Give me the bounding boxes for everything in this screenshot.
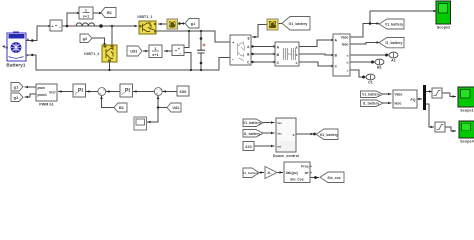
- svg-text:1: 1: [154, 47, 156, 51]
- svg-text:a: a: [347, 53, 349, 57]
- three-phase VI measurement: [333, 34, 350, 76]
- from tag g2: [80, 34, 92, 43]
- universal bridge inverter: [230, 35, 251, 65]
- svg-text:Scope2: Scope2: [437, 25, 450, 29]
- from tag I1_battery PQ: [361, 100, 384, 107]
- wire tag V1 to douze: [263, 122, 274, 124]
- three-phase filter block: [275, 42, 299, 66]
- svg-text:s+1: s+1: [152, 53, 158, 57]
- svg-text:220: 220: [245, 145, 252, 149]
- svg-text:I1_battery: I1_battery: [363, 102, 380, 106]
- svg-text:I1_battery: I1_battery: [385, 41, 402, 45]
- wire gain to PLL: [277, 172, 283, 174]
- svg-text:B: B: [277, 53, 280, 57]
- goto tag U81: [127, 46, 142, 56]
- wire g2 tag to IGBT2 gate: [92, 38, 105, 44]
- goto tag Sin_cos: [320, 172, 344, 183]
- wire IGBT1 out to inverter plus: [156, 31, 230, 42]
- from tag I1_battery douze: [243, 130, 263, 138]
- wire from g1 to yellow sq1: [181, 23, 185, 25]
- svg-text:A: A: [335, 39, 338, 43]
- svg-text:B: B: [335, 54, 338, 58]
- scope Scope1: [458, 87, 474, 112]
- gain K: [265, 167, 277, 179]
- svg-text:Battery1: Battery1: [6, 63, 26, 68]
- svg-text:pwm1: pwm1: [38, 93, 48, 97]
- rate transition RT2: [435, 122, 445, 132]
- wire PI2 to sum1: [107, 91, 121, 93]
- terminal oval C1: [366, 74, 375, 85]
- svg-text:Vref: Vref: [49, 90, 56, 94]
- yellow memory block YSQ1: [167, 19, 178, 29]
- scope Scope4: [459, 121, 474, 143]
- constant 220: [243, 142, 254, 151]
- wire filter b to measurement B: [299, 54, 332, 55]
- terminal oval B1: [375, 59, 384, 70]
- goto tag g1 left: [11, 83, 23, 92]
- wire voltage measure plus up: [184, 31, 189, 48]
- wire PI1 to PWM vref: [59, 91, 74, 93]
- svg-text:c: c: [347, 68, 349, 72]
- svg-text:U81: U81: [173, 106, 180, 110]
- svg-text:g1: g1: [14, 85, 19, 89]
- wire sum2 to PI2: [134, 91, 155, 93]
- wire sum1 to PI1: [87, 91, 98, 93]
- svg-text:s+1: s+1: [83, 14, 89, 18]
- goto tag G1_battery bottom: [316, 129, 338, 140]
- goto tag I1_battery right: [379, 38, 404, 48]
- svg-text:IGBT1_1: IGBT1_1: [137, 15, 152, 19]
- svg-text:wt: wt: [277, 144, 282, 148]
- wire tag to gain: [259, 172, 264, 174]
- svg-text:Douze_control: Douze_control: [273, 154, 299, 158]
- svg-text:A: A: [277, 46, 280, 50]
- svg-text:Vabc: Vabc: [341, 35, 349, 39]
- svg-text:C: C: [277, 61, 280, 65]
- wire CM to inductor to IGBT1: [62, 25, 137, 27]
- svg-text:G1_battery: G1_battery: [320, 133, 338, 137]
- svg-text:-K-: -K-: [267, 171, 272, 175]
- sum2 circle: [154, 88, 162, 96]
- wire VM out to filter2: [165, 50, 173, 52]
- svg-text:V1_battery: V1_battery: [362, 93, 380, 97]
- svg-text:B1: B1: [377, 66, 382, 70]
- svg-text:Iac: Iac: [278, 131, 283, 135]
- svg-text:g2: g2: [83, 37, 88, 41]
- svg-text:g: g: [293, 132, 295, 136]
- svg-text:Vabc: Vabc: [395, 93, 403, 97]
- svg-text:PWM b1: PWM b1: [39, 102, 54, 106]
- inductor series RL: [72, 23, 97, 26]
- svg-text:V1_battery: V1_battery: [243, 121, 261, 125]
- wire tag I1 to PQ: [383, 102, 391, 104]
- yellow memory block YSQ2: [267, 19, 278, 30]
- PI controller PI2: [120, 84, 133, 97]
- wire tag I1 to douze: [263, 132, 274, 134]
- svg-text:pwm: pwm: [38, 86, 46, 90]
- sum1 circle: [98, 88, 106, 96]
- svg-text:IGBT1_2: IGBT1_2: [84, 52, 99, 56]
- scope Scope3 flipped: [134, 117, 147, 130]
- svg-text:Freq: Freq: [301, 164, 308, 168]
- transfer fcn filter2: [149, 45, 162, 58]
- wire G1_battery tag to yellow sq2: [280, 23, 283, 25]
- svg-text:U81: U81: [130, 50, 137, 54]
- subsystem Douze_control: [273, 118, 299, 158]
- capacitor C1: [197, 44, 206, 54]
- wire battery plus to current measure: [26, 26, 49, 41]
- wire filter c to measurement C: [299, 62, 332, 66]
- from tag V1_battery pll: [242, 168, 259, 178]
- goto tag V1_battery topright: [379, 19, 404, 29]
- svg-text:A1: A1: [391, 59, 396, 63]
- PI controller PI1: [73, 84, 86, 97]
- svg-text:Iac: Iac: [278, 121, 283, 125]
- arrowheads: [25, 10, 456, 179]
- from tag G1_battery: [282, 17, 310, 31]
- from tag U81: [167, 103, 181, 112]
- wire Vabc out to tag V1_battery: [350, 24, 377, 38]
- svg-text:g1: g1: [191, 22, 196, 26]
- wire node junction up to filter TF: [67, 13, 78, 26]
- svg-text:PI: PI: [78, 88, 83, 94]
- svg-text:a: a: [296, 46, 298, 50]
- capacitor branch vertical: [200, 31, 202, 50]
- wire branch down to scope3: [148, 108, 159, 123]
- svg-text:b: b: [347, 60, 349, 64]
- wire filter2 to goto U81: [144, 50, 150, 52]
- svg-text:Vab(pu): Vab(pu): [286, 171, 298, 175]
- constant 600: [177, 86, 189, 96]
- svg-text:C: C: [335, 65, 338, 69]
- from tag V1_battery douze: [243, 119, 263, 127]
- wire RT1 to scope1: [442, 93, 456, 97]
- wire TF to goto B1: [93, 12, 100, 14]
- wire RT2 to scope4: [445, 127, 456, 131]
- from tag B1: [114, 103, 127, 112]
- battery Battery1: [2, 32, 30, 68]
- svg-text:I1_battery: I1_battery: [244, 132, 261, 136]
- goto tag B1 top: [101, 8, 116, 18]
- svg-text:1: 1: [85, 9, 87, 13]
- svg-text:V1_battery: V1_battery: [385, 23, 403, 27]
- wire PWM pwm1 to g2: [25, 94, 36, 97]
- goto tag g2 left: [11, 93, 23, 102]
- wire port a to A1: [350, 54, 390, 56]
- wire demux out2 to RT2: [426, 104, 434, 127]
- IGBT IGBT1_1: [137, 15, 156, 34]
- wire port b to B1: [350, 61, 376, 63]
- from tag g1: [185, 19, 199, 29]
- svg-text:Iabc: Iabc: [395, 102, 402, 106]
- discrete PLL block: [284, 162, 312, 183]
- svg-text:PI: PI: [125, 88, 130, 94]
- wire const600 to sum2: [163, 91, 177, 93]
- wire from U81 to sum2 bottom: [158, 96, 167, 108]
- demux bar: [423, 85, 426, 110]
- svg-text:C1: C1: [368, 81, 373, 85]
- wire tag V1 to PQ: [383, 93, 391, 95]
- svg-text:g: g: [247, 36, 249, 40]
- svg-text:B1: B1: [107, 11, 112, 15]
- svg-text:Scope4: Scope4: [460, 139, 473, 143]
- svg-text:G1_battery: G1_battery: [289, 22, 308, 26]
- PWM generator block: [36, 84, 57, 106]
- wire from B1 to sum1 bottom: [102, 96, 115, 108]
- wire IGBT2 collector drop: [111, 26, 113, 45]
- svg-text:V1_battery: V1_battery: [242, 171, 259, 175]
- wire PLL out to Sin_cos: [310, 177, 319, 179]
- wire yellow sq1 to IGBT1 gate: [159, 23, 168, 25]
- wire demux out1 to RT1: [426, 91, 431, 93]
- svg-text:g2: g2: [14, 96, 19, 100]
- wire inverter B to filter: [251, 53, 274, 55]
- wire PQ to demux: [417, 98, 422, 100]
- svg-text:m: m: [5, 45, 8, 49]
- wire douze out to goto G1_battery: [296, 133, 314, 135]
- svg-text:PQ: PQ: [411, 98, 416, 102]
- svg-text:c: c: [296, 61, 298, 65]
- svg-text:Scope1: Scope1: [460, 108, 473, 112]
- svg-text:+: +: [27, 37, 30, 42]
- svg-text:600: 600: [180, 89, 188, 94]
- wire yellow sq2 to inverter g: [253, 25, 268, 38]
- svg-text:wt: wt: [304, 171, 310, 175]
- voltage measurement VM1: [172, 45, 184, 56]
- svg-text:B1: B1: [119, 106, 124, 110]
- terminal oval A1: [389, 52, 398, 63]
- wire bottom bus battery minus to inverter minus: [26, 55, 230, 70]
- transfer fcn filter1: [79, 7, 93, 19]
- wire inverter C to filter: [251, 61, 274, 63]
- wire const220 to douze: [254, 145, 274, 147]
- wire filter a to measurement A: [299, 40, 332, 47]
- PQ measurement block: [393, 90, 417, 108]
- IGBT IGBT1_2: [84, 45, 117, 62]
- wire port c to C1: [350, 70, 367, 77]
- wire voltage measure minus down: [184, 53, 191, 71]
- scope Scope2: [436, 1, 451, 29]
- wire Iabc out to tag I1_battery: [350, 43, 377, 45]
- wire inverter A to filter: [251, 46, 274, 48]
- wire IGBT2 emitter to bus: [109, 62, 111, 70]
- svg-text:Iabc: Iabc: [342, 42, 349, 46]
- wire PWM pwm to g1: [25, 86, 36, 88]
- from tag V1_battery PQ: [361, 91, 384, 98]
- svg-text:Sin_Cos: Sin_Cos: [290, 177, 304, 181]
- svg-text:Sin_cos: Sin_cos: [327, 176, 340, 180]
- rate transition RT1: [432, 88, 442, 98]
- current measurement CM1: [50, 20, 62, 31]
- wire branch up to Scope2: [370, 11, 434, 24]
